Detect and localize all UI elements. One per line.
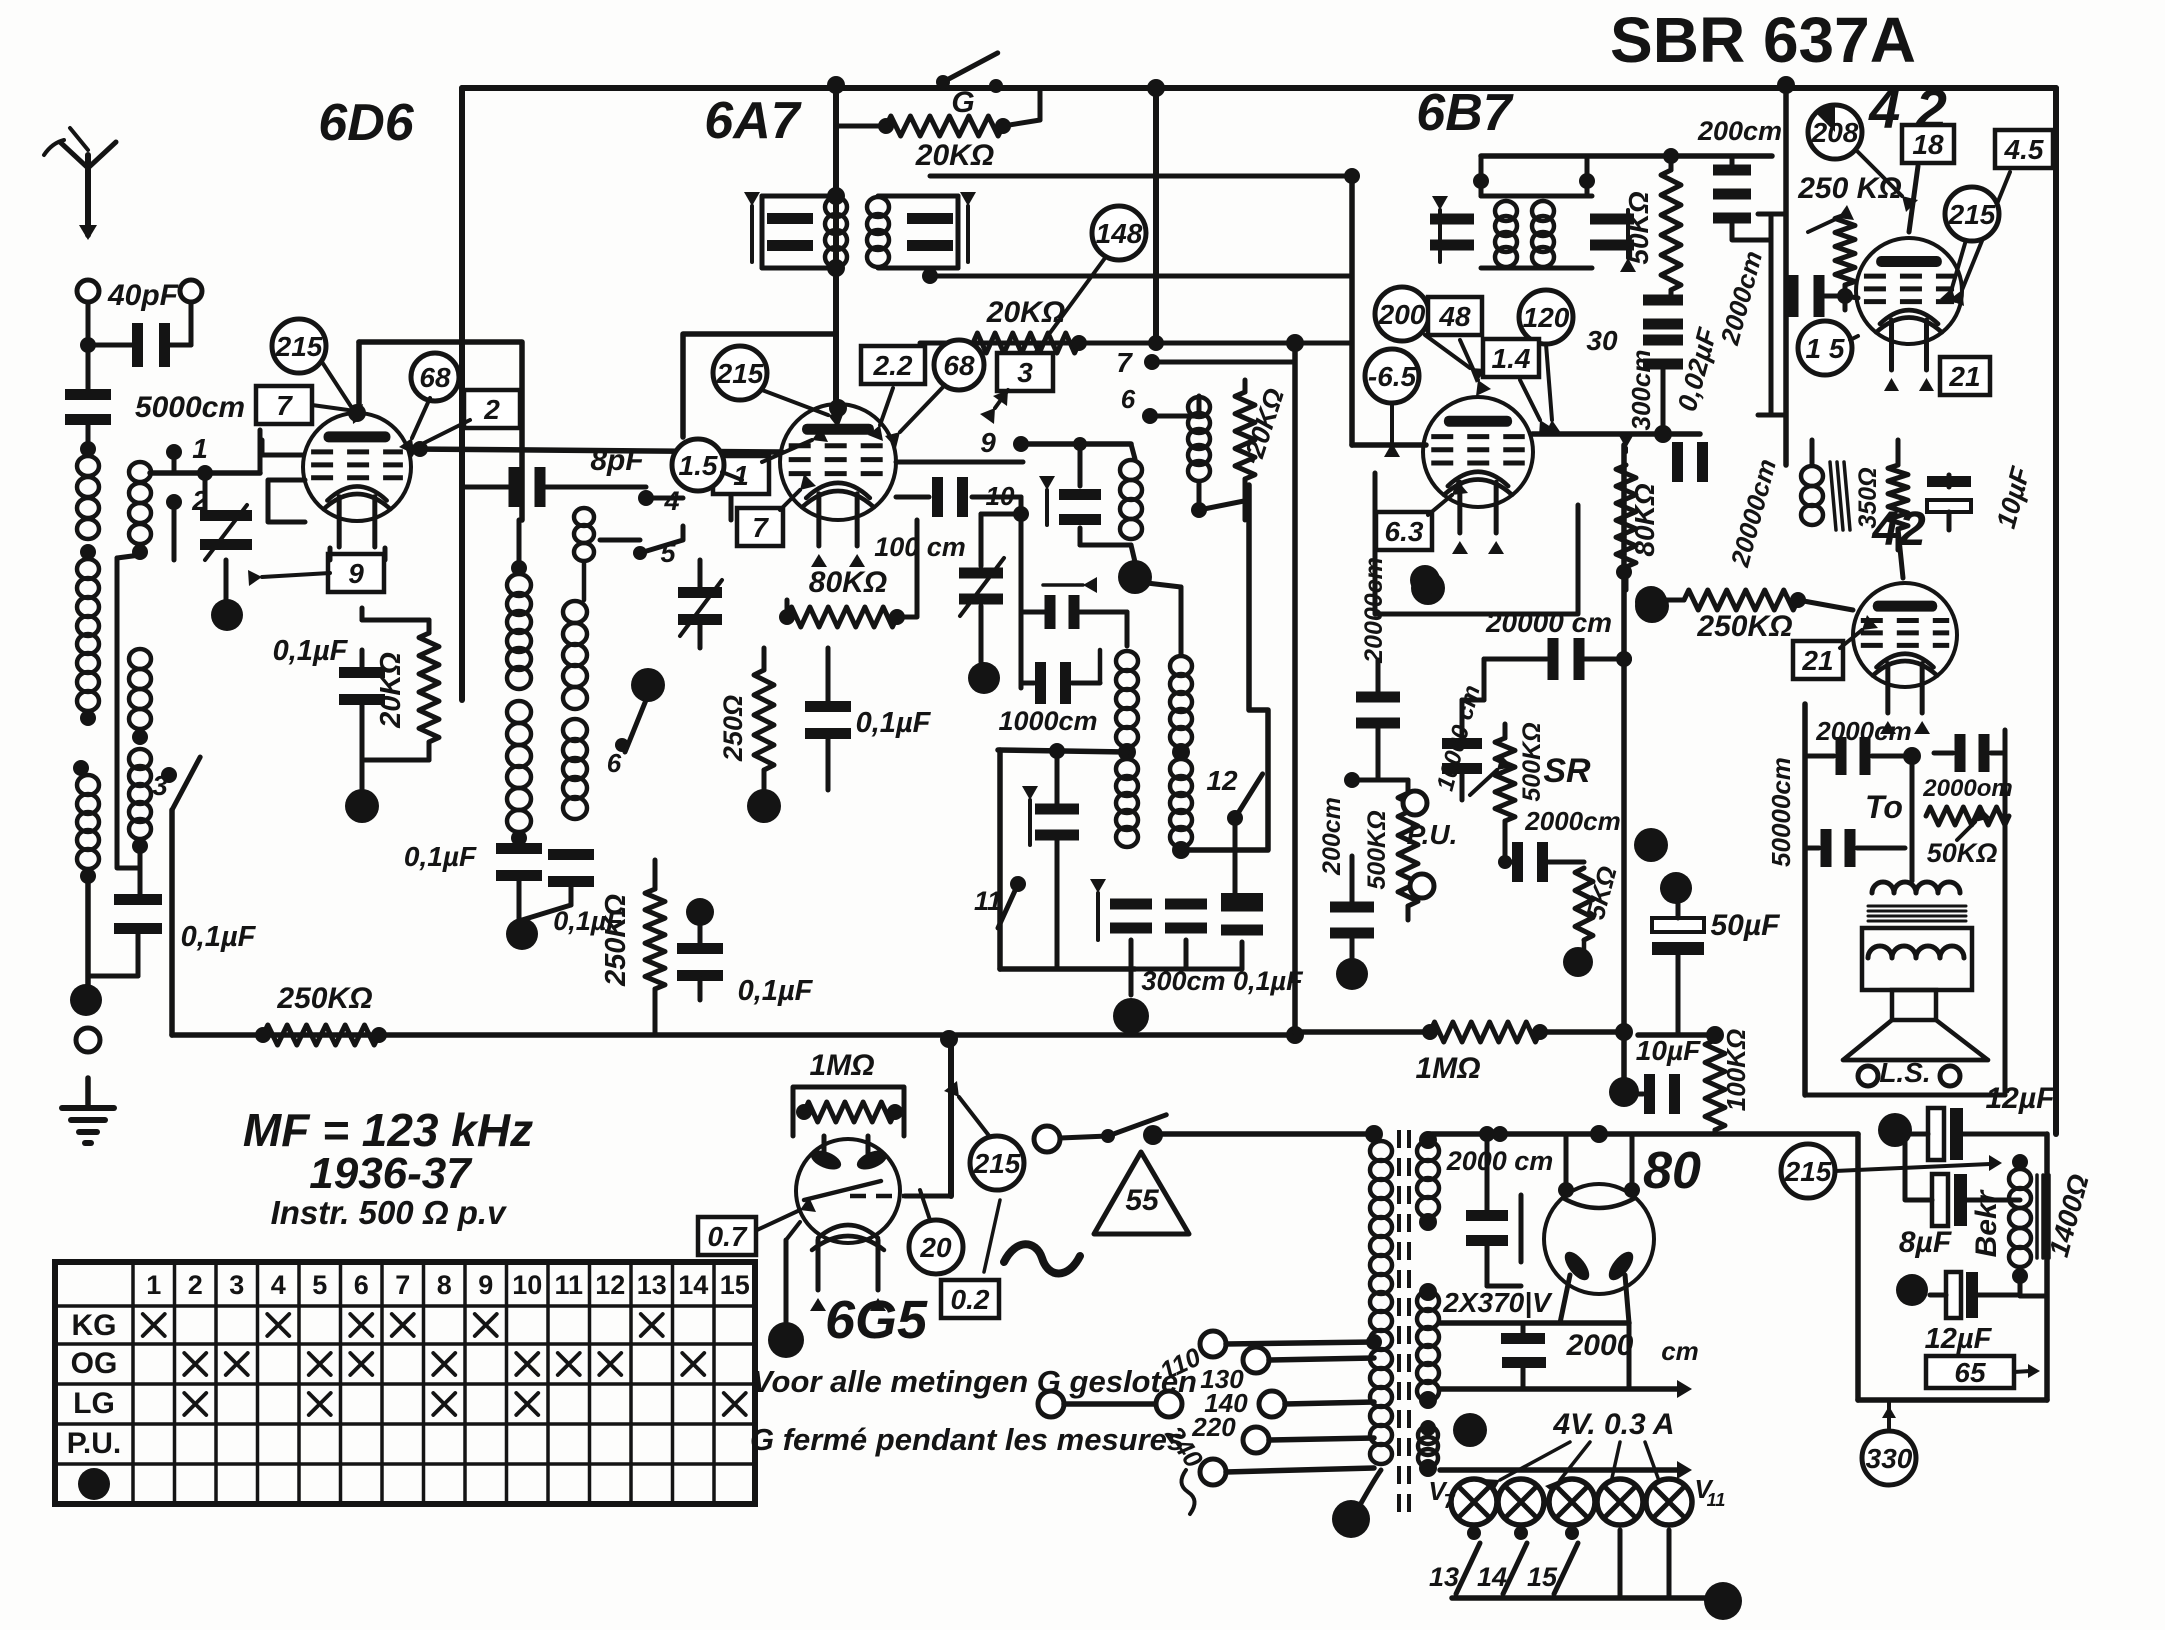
svg-text:14: 14 xyxy=(678,1270,708,1300)
wire 6D6 k xyxy=(328,548,333,560)
wire 80 k xyxy=(1560,1275,1570,1323)
cap 50uF xyxy=(1652,918,1704,932)
svg-text:4: 4 xyxy=(271,1270,286,1300)
svg-text:4: 4 xyxy=(663,486,679,516)
resistor 250K bottom xyxy=(263,1025,379,1045)
coil M2b xyxy=(563,719,587,741)
1M box xyxy=(793,1087,904,1136)
switch 11 xyxy=(1010,876,1026,892)
big dot SR2 xyxy=(1660,872,1692,904)
cap osc mid xyxy=(1035,804,1079,815)
svg-text:15: 15 xyxy=(1527,1562,1558,1592)
big dot ant xyxy=(70,984,102,1016)
svg-text:250Ω: 250Ω xyxy=(718,695,748,762)
coil ant B xyxy=(77,559,99,579)
var cap osc xyxy=(981,512,1021,517)
transformer core xyxy=(1397,1130,1401,1520)
svg-text:11: 11 xyxy=(974,886,1002,916)
svg-text:12: 12 xyxy=(595,1270,625,1300)
svg-text:6A7: 6A7 xyxy=(704,92,801,150)
arrow line A xyxy=(1440,1386,1680,1392)
cap 6B7 coup xyxy=(1356,692,1400,703)
svg-text:1 5: 1 5 xyxy=(1806,333,1845,364)
svg-text:4V. 0.3 A: 4V. 0.3 A xyxy=(1552,1408,1674,1441)
wire pin7 xyxy=(1152,360,1295,365)
svg-text:215: 215 xyxy=(1784,1156,1832,1187)
6D6 box xyxy=(359,342,522,520)
circle 15 xyxy=(1798,321,1852,375)
svg-text:6G5: 6G5 xyxy=(825,1290,928,1350)
box 6.3 xyxy=(1376,512,1432,550)
cap 8pF wire xyxy=(462,485,509,490)
circle 330 xyxy=(1862,1431,1916,1485)
cap 2000 spk1 xyxy=(1836,737,1847,775)
svg-text:7: 7 xyxy=(395,1270,410,1300)
svg-text:10µF: 10µF xyxy=(1636,1035,1701,1066)
coil sec top xyxy=(129,462,151,482)
cap 200cm 6B7 xyxy=(1713,165,1751,176)
box 21 lower xyxy=(1793,641,1843,679)
svg-text:0,1µF: 0,1µF xyxy=(856,707,932,739)
svg-text:6: 6 xyxy=(1121,384,1136,414)
svg-text:200: 200 xyxy=(1378,299,1426,330)
svg-text:215: 215 xyxy=(716,358,764,389)
switch 15 xyxy=(1565,1526,1579,1540)
tap 110 xyxy=(1200,1331,1226,1357)
svg-text:18: 18 xyxy=(1912,129,1944,160)
node 6A7 top xyxy=(827,76,845,94)
svg-text:8: 8 xyxy=(437,1270,452,1300)
svg-text:250KΩ: 250KΩ xyxy=(276,982,372,1015)
wire 80 top xyxy=(1430,1131,1858,1137)
svg-text:20000 cm: 20000 cm xyxy=(1485,607,1612,638)
svg-text:10: 10 xyxy=(986,481,1015,511)
svg-text:Voor alle metingen G gesloten: Voor alle metingen G gesloten xyxy=(752,1364,1197,1399)
cap 0,1uF M2 xyxy=(548,849,594,860)
box 2.2 xyxy=(861,346,925,384)
wire bus node1 xyxy=(1147,79,1165,97)
resistor 250K 42 xyxy=(1835,215,1855,285)
svg-text:-6.5: -6.5 xyxy=(1368,361,1417,392)
speaker cone xyxy=(1843,1020,1988,1060)
box 18 xyxy=(1902,125,1954,163)
wire IF1 bottom xyxy=(930,274,1352,279)
node xyxy=(132,838,148,854)
lamp 2 xyxy=(1498,1479,1544,1525)
node xyxy=(1118,743,1136,761)
wire 6A7 grid line xyxy=(896,460,1023,465)
svg-text:215: 215 xyxy=(1948,199,1996,230)
svg-text:12µF: 12µF xyxy=(1925,1323,1993,1355)
svg-text:9: 9 xyxy=(478,1270,493,1300)
cap 10000 xyxy=(1442,738,1482,749)
svg-text:SR: SR xyxy=(1543,752,1591,790)
svg-text:6: 6 xyxy=(354,1270,369,1300)
svg-text:100 cm: 100 cm xyxy=(874,532,966,562)
wire bekr xyxy=(2014,1198,2020,1203)
svg-text:20KΩ: 20KΩ xyxy=(915,139,994,172)
cap To xyxy=(1821,829,1832,867)
pointer 215 6D6 xyxy=(272,319,326,373)
wire 6D6 drop xyxy=(459,88,465,700)
cap 100cm xyxy=(896,495,929,500)
svg-text:40pF: 40pF xyxy=(107,279,179,312)
box 0.2 xyxy=(941,1280,999,1318)
svg-text:P.U.: P.U. xyxy=(1407,819,1458,850)
IF2 cap right xyxy=(1590,214,1634,225)
cap 8uF xyxy=(1932,1174,1948,1226)
svg-text:7: 7 xyxy=(1443,1491,1455,1513)
cap 2000 SR xyxy=(1512,842,1523,882)
arrow line B xyxy=(1440,1467,1680,1473)
big dot 6B7 b xyxy=(1635,589,1669,623)
svg-text:9: 9 xyxy=(348,558,364,589)
resistor 20K cath xyxy=(419,633,439,742)
coil M1a xyxy=(507,574,531,596)
svg-text:13: 13 xyxy=(1429,1562,1459,1592)
wire ant down xyxy=(85,876,91,988)
svg-text:250 KΩ: 250 KΩ xyxy=(1797,172,1901,205)
svg-text:3: 3 xyxy=(152,770,168,801)
svg-text:350Ω: 350Ω xyxy=(1854,467,1882,528)
node xyxy=(1172,841,1190,859)
switch 6 xyxy=(615,738,629,752)
svg-text:LG: LG xyxy=(73,1387,115,1420)
big dot V7 xyxy=(1453,1413,1487,1447)
pointer 215 6A7 xyxy=(713,346,767,400)
6A7 box xyxy=(683,334,836,437)
svg-text:7: 7 xyxy=(752,512,769,543)
tube 42 top xyxy=(1856,238,1962,344)
transformer sec C xyxy=(1418,1426,1438,1444)
big dot SR1 xyxy=(1634,828,1668,862)
wire pin1 right xyxy=(150,470,260,476)
resistor 50K xyxy=(1661,170,1681,290)
svg-text:12µF: 12µF xyxy=(1986,1082,2056,1115)
table grid xyxy=(55,1262,755,1504)
wire 6A7 drop xyxy=(833,85,839,408)
svg-text:14: 14 xyxy=(1477,1562,1507,1592)
svg-text:Bekr: Bekr xyxy=(1970,1188,2003,1257)
cap 0,1uF left xyxy=(138,860,143,897)
pointer 215 bekr xyxy=(1781,1144,1835,1198)
svg-text:cm: cm xyxy=(1661,1336,1699,1366)
svg-text:6.3: 6.3 xyxy=(1385,516,1424,547)
wire 42 in xyxy=(1843,285,1848,296)
node IF2 xyxy=(1473,173,1489,189)
cap 20000 SR xyxy=(1484,657,1547,662)
svg-text:P.U.: P.U. xyxy=(67,1427,121,1460)
wire osc right xyxy=(1197,482,1202,510)
terminal ant 2 xyxy=(180,280,202,302)
svg-text:65: 65 xyxy=(1954,1357,1986,1388)
svg-text:1.5: 1.5 xyxy=(679,450,718,481)
svg-text:1936-37: 1936-37 xyxy=(309,1149,473,1198)
pointer 215 42 xyxy=(1945,187,1999,241)
svg-text:1000cm: 1000cm xyxy=(998,706,1097,736)
svg-text:0,1µF: 0,1µF xyxy=(181,921,257,953)
trim cap xyxy=(1045,595,1056,629)
coil osc C2 xyxy=(1170,759,1192,779)
wire osc top link xyxy=(1147,583,1181,587)
svg-text:0,1µF: 0,1µF xyxy=(404,841,477,872)
wire mains H xyxy=(1152,1131,1374,1137)
pointer 215 G5 xyxy=(970,1136,1024,1190)
svg-text:300cm: 300cm xyxy=(1626,350,1656,431)
svg-text:80KΩ: 80KΩ xyxy=(1629,483,1660,556)
resistor 1M right xyxy=(1430,1022,1540,1042)
cap 1000cm xyxy=(1035,662,1046,704)
cap 40pF xyxy=(86,302,91,345)
resistor 20K v xyxy=(1235,392,1255,479)
box 2 6D6 xyxy=(464,390,520,428)
IF2 coil right xyxy=(1532,201,1554,221)
svg-text:5: 5 xyxy=(312,1270,327,1300)
wire SR v xyxy=(1482,659,1487,700)
resistor 500K mid xyxy=(1398,793,1418,906)
svg-text:48: 48 xyxy=(1438,301,1471,332)
42 panel edge xyxy=(1783,85,1789,465)
svg-text:200cm: 200cm xyxy=(1697,116,1782,146)
svg-text:1: 1 xyxy=(146,1270,161,1300)
svg-text:200cm: 200cm xyxy=(1318,797,1346,876)
svg-text:0.2: 0.2 xyxy=(951,1284,990,1315)
coil osc A xyxy=(1120,460,1142,480)
box 65 xyxy=(1926,1356,2014,1388)
svg-text:215: 215 xyxy=(275,331,323,362)
resistor 50K spk xyxy=(1926,807,2009,825)
svg-text:330: 330 xyxy=(1866,1443,1913,1474)
box 1 6A7 xyxy=(713,456,769,494)
wire x1624 xyxy=(1621,445,1627,1094)
wire 2x370 line xyxy=(1440,1320,1629,1326)
big dot xyxy=(211,599,243,631)
svg-text:220: 220 xyxy=(1191,1412,1236,1442)
circle 1.5 xyxy=(672,439,724,491)
tube 6B7 xyxy=(1423,397,1533,507)
svg-text:2000 cm: 2000 cm xyxy=(1446,1146,1554,1176)
cap 0,1uF M3 xyxy=(677,943,723,954)
node xyxy=(132,729,148,745)
cap 5000cm xyxy=(86,345,91,396)
pointer 208 xyxy=(1808,105,1862,159)
lamp 4 xyxy=(1597,1479,1643,1525)
pointer 148 xyxy=(1092,206,1146,260)
wire spk mid xyxy=(1910,756,1915,881)
IF2 cap left xyxy=(1430,214,1474,225)
cap 2000 80a xyxy=(1466,1210,1508,1221)
resistor 20K mid xyxy=(973,333,1079,353)
svg-text:9: 9 xyxy=(980,427,996,458)
wire 6D6 grid left xyxy=(262,440,303,455)
coil 8pF xyxy=(574,508,594,526)
IF1 cap left xyxy=(767,213,813,224)
node xyxy=(511,560,527,576)
resistor 5K xyxy=(1575,868,1593,940)
mains sel wire xyxy=(1038,1391,1064,1417)
svg-text:50µF: 50µF xyxy=(1711,909,1781,942)
svg-text:500KΩ: 500KΩ xyxy=(1518,722,1546,801)
box 3 xyxy=(997,353,1053,391)
box 7 6D6 xyxy=(256,386,312,424)
svg-text:2.2: 2.2 xyxy=(873,350,913,381)
tube 6D6 xyxy=(303,413,411,521)
resistor 20K top xyxy=(886,116,1003,136)
var cap M xyxy=(678,587,722,598)
wire long v1295 xyxy=(1292,343,1298,1035)
wire osc left v xyxy=(997,750,1003,969)
cap 12uF b xyxy=(1946,1272,1961,1318)
big dot 12uF xyxy=(1878,1113,1912,1147)
cap 0,1uF 6A7 xyxy=(805,701,851,712)
wire 6B7 grid xyxy=(1349,176,1355,445)
tube 6G5 xyxy=(796,1139,900,1243)
switch 13 xyxy=(1467,1526,1481,1540)
term PU1 xyxy=(1403,791,1427,815)
wire 6D6 sig xyxy=(410,449,782,452)
svg-text:12: 12 xyxy=(1206,765,1238,796)
bulb dot xyxy=(1563,947,1593,977)
svg-text:20000cm: 20000cm xyxy=(1360,557,1388,664)
svg-text:To: To xyxy=(1865,789,1903,825)
pointer 68 6A7 xyxy=(934,340,984,390)
svg-text:KG: KG xyxy=(72,1309,117,1342)
circle 20 xyxy=(909,1220,963,1274)
big dot osc xyxy=(1118,560,1152,594)
svg-text:50000cm: 50000cm xyxy=(1766,757,1796,867)
big dot 6D6 cath xyxy=(345,789,379,823)
svg-text:13: 13 xyxy=(637,1270,667,1300)
svg-text:G fermé pendant les mesures: G fermé pendant les mesures xyxy=(750,1422,1184,1457)
wire 6B7 out xyxy=(1532,431,1700,437)
cap 42 k xyxy=(1927,476,1971,487)
wire osc bottom xyxy=(1000,966,1135,972)
svg-text:6: 6 xyxy=(607,748,622,778)
transformer sec A xyxy=(1417,1141,1439,1161)
pin 2 xyxy=(166,494,182,510)
svg-text:8µF: 8µF xyxy=(1899,1226,1952,1259)
table X marks xyxy=(143,1314,165,1336)
svg-text:6D6: 6D6 xyxy=(318,94,414,152)
svg-text:20KΩ: 20KΩ xyxy=(986,296,1065,329)
transformer bottom dot xyxy=(1332,1500,1370,1538)
caps 300cm row xyxy=(1110,899,1152,910)
wire IF1 to bus xyxy=(930,174,1172,179)
resistor 350 xyxy=(1888,465,1908,529)
pin 5 xyxy=(633,546,647,560)
svg-text:6B7: 6B7 xyxy=(1416,84,1513,142)
cap 12uF a xyxy=(1928,1108,1944,1160)
svg-text:7: 7 xyxy=(276,390,293,421)
lamp 1 xyxy=(1451,1479,1497,1525)
big dot M xyxy=(506,918,538,950)
svg-text:1: 1 xyxy=(192,433,208,464)
tube 6A7 xyxy=(780,404,896,520)
wire 42L top xyxy=(1898,529,1903,578)
node xyxy=(80,710,96,726)
svg-text:2X370|V: 2X370|V xyxy=(1442,1287,1553,1318)
line 2000cm xyxy=(1769,214,1774,415)
svg-text:5000cm: 5000cm xyxy=(135,391,245,424)
svg-text:3: 3 xyxy=(1017,357,1033,388)
mains switch xyxy=(1034,1126,1060,1152)
node xyxy=(80,544,96,560)
tube 42 lower xyxy=(1853,583,1957,687)
big dot osc2 xyxy=(968,662,1000,694)
hash 42 xyxy=(1830,462,1836,530)
svg-text:2: 2 xyxy=(188,1270,203,1300)
transformer sec B xyxy=(1417,1291,1439,1311)
tube 80 xyxy=(1544,1184,1654,1294)
caps 300cm 6B7 xyxy=(1643,295,1683,306)
resistor 500K SR xyxy=(1495,738,1515,821)
cap 2000 spk2 xyxy=(1955,734,1966,772)
svg-text:SBR 637A: SBR 637A xyxy=(1610,4,1916,76)
coil M2a xyxy=(563,601,587,623)
pin 1 xyxy=(166,444,182,460)
svg-text:215: 215 xyxy=(973,1148,1021,1179)
svg-text:11: 11 xyxy=(1707,1490,1726,1510)
wire right sub xyxy=(1855,1134,1861,1400)
svg-text:L.S.: L.S. xyxy=(1879,1057,1930,1088)
wire 6B7 top xyxy=(1481,153,1772,159)
node ant coil top xyxy=(80,441,96,457)
coil osc B2 xyxy=(1170,656,1192,676)
big dot osc bot xyxy=(1113,998,1149,1034)
output transformer xyxy=(1872,882,1960,893)
IF1 coil right xyxy=(867,197,889,217)
wire osc mid xyxy=(998,750,1127,752)
IF1 coil left xyxy=(825,197,847,217)
svg-text:21: 21 xyxy=(1801,645,1833,676)
svg-text:20: 20 xyxy=(919,1232,952,1263)
svg-text:11: 11 xyxy=(554,1270,583,1300)
transformer primary xyxy=(1370,1141,1392,1161)
6B7 k box xyxy=(1375,473,1578,614)
sine symbol xyxy=(1004,1244,1080,1273)
tap 140 xyxy=(1259,1391,1285,1417)
coil 42 out xyxy=(1801,466,1823,486)
resistor 1M 6G5 xyxy=(804,1102,895,1122)
IF1 frame xyxy=(760,196,765,268)
wire sec join xyxy=(138,846,143,900)
wire 6A7 k1 xyxy=(785,600,790,617)
antenna xyxy=(85,155,91,235)
resistor 100K xyxy=(1705,1040,1725,1130)
box 48 xyxy=(1428,297,1482,335)
big dot 6G5 xyxy=(768,1322,804,1358)
svg-text:68: 68 xyxy=(943,350,975,381)
box 7 6A7 xyxy=(737,508,783,546)
wire 6G5 drop xyxy=(948,1041,954,1196)
svg-text:2000cm: 2000cm xyxy=(1815,716,1911,746)
svg-text:2000om: 2000om xyxy=(1922,775,2012,802)
svg-text:G: G xyxy=(951,86,974,119)
wire 80 anodes xyxy=(1564,1134,1569,1188)
line 80 vert xyxy=(1519,1195,1524,1262)
switch G xyxy=(943,53,998,82)
triangle 55 xyxy=(1094,1152,1189,1234)
coil sec mid xyxy=(129,649,151,669)
ground xyxy=(85,1078,91,1108)
svg-text:120: 120 xyxy=(1523,302,1570,333)
coil sec low xyxy=(129,749,151,769)
svg-text:Instr. 500 Ω p.v: Instr. 500 Ω p.v xyxy=(271,1194,508,1231)
svg-text:4.5: 4.5 xyxy=(2004,134,2044,165)
node 6D6 top xyxy=(348,404,366,422)
wire 50uF xyxy=(1676,1000,1681,1035)
arrow 330 xyxy=(1887,1400,1891,1428)
